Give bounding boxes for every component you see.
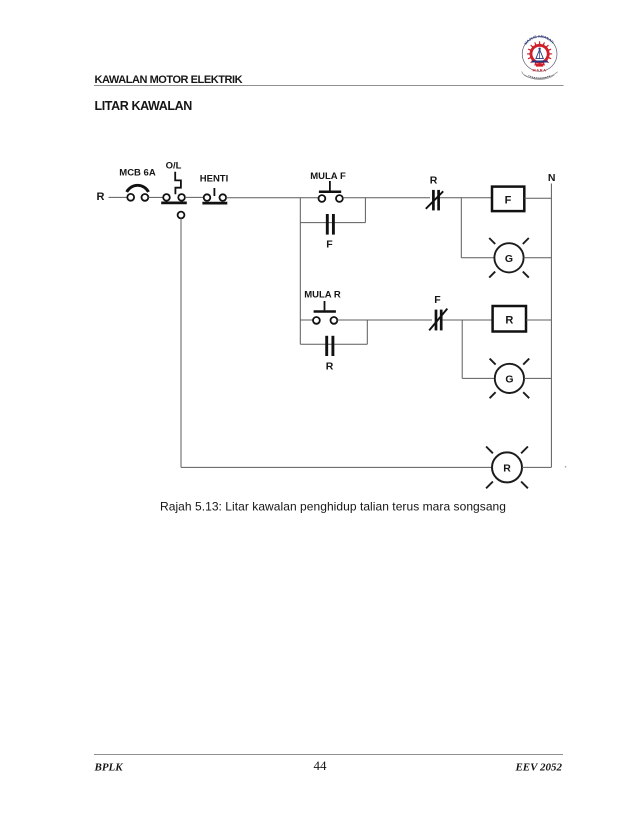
svg-text:MARA: MARA — [532, 69, 546, 73]
svg-text:N: N — [548, 172, 556, 184]
wire right side of holding branch R — [366, 320, 368, 344]
wire lamp G1 to N — [524, 257, 552, 259]
svg-text:44: 44 — [314, 758, 328, 773]
svg-text:R: R — [505, 315, 513, 327]
contactor coil R — [493, 306, 526, 332]
header rule — [94, 85, 564, 87]
svg-text:LITAR KAWALAN: LITAR KAWALAN — [95, 99, 193, 113]
wire left drop from O/L — [180, 218, 182, 467]
holding contact R — [326, 336, 334, 373]
stop button HENTI — [200, 174, 229, 204]
wire branch down to lamp G1 — [460, 198, 462, 258]
wire lamp R to N — [522, 466, 551, 468]
start button MULA F — [310, 171, 346, 202]
svg-text:EEV 2052: EEV 2052 — [514, 762, 562, 774]
overload relay O/L — [161, 161, 187, 219]
wire lower holding branch R — [300, 343, 367, 345]
svg-text:G: G — [505, 253, 513, 265]
wire MULA R to contact F — [337, 319, 432, 321]
wire neutral N vertical — [550, 184, 552, 468]
wire branch down to lamp G2 — [461, 320, 463, 378]
wire row2 start — [300, 319, 313, 321]
svg-text:O/L: O/L — [166, 161, 182, 172]
start button MULA R — [304, 290, 341, 324]
interlock contact F (NC) — [429, 294, 447, 330]
pilot lamp R — [486, 447, 528, 489]
wire to lamp G1 — [461, 257, 494, 259]
wire coil F to N — [524, 197, 551, 199]
wire vertical feed to row 2 — [299, 198, 301, 344]
contactor coil F — [492, 187, 524, 212]
breaker MCB 6A — [119, 168, 156, 201]
svg-text:F: F — [434, 294, 441, 306]
holding contact F — [326, 214, 333, 251]
svg-text:Rajah 5.13: Litar kawalan peng: Rajah 5.13: Litar kawalan penghidup tali… — [160, 500, 506, 514]
wire MULA F to contact R — [343, 197, 430, 199]
wire MCB to O/L — [148, 196, 163, 198]
svg-text:R: R — [503, 463, 511, 475]
wire lower holding branch F — [300, 222, 365, 224]
svg-text:MAJLIS AMANAH RAKYAT: MAJLIS AMANAH RAKYAT — [0, 0, 555, 46]
svg-text:F: F — [505, 194, 512, 206]
wire HENTI to MULA F — [226, 197, 319, 199]
logo IKM MARA emblem — [0, 0, 558, 79]
wire to lamp G2 — [462, 377, 495, 379]
svg-text:MCB 6A: MCB 6A — [119, 168, 156, 179]
svg-text:MULA F: MULA F — [310, 171, 346, 182]
svg-text:KAWALAN MOTOR ELEKTRIK: KAWALAN MOTOR ELEKTRIK — [95, 74, 243, 86]
svg-text:HENTI: HENTI — [200, 174, 229, 185]
interlock contact R (NC) — [426, 175, 443, 211]
svg-text:R: R — [97, 191, 105, 203]
wire bottom run — [181, 466, 492, 468]
svg-text:F: F — [326, 239, 333, 251]
stray mark — [565, 466, 567, 468]
wire R to MCB — [109, 196, 128, 198]
wire O/L to HENTI — [185, 196, 204, 198]
svg-text:R: R — [326, 360, 334, 372]
svg-text:MULA R: MULA R — [304, 290, 341, 301]
wire lamp G2 to N — [524, 377, 551, 379]
footer rule — [94, 754, 563, 756]
wire contact R to coil F — [440, 197, 492, 199]
wire contact F to coil R — [443, 319, 493, 321]
pilot lamp G1 — [489, 238, 529, 278]
wire coil R to N — [526, 319, 551, 321]
svg-text:R: R — [430, 175, 438, 187]
svg-text:G: G — [505, 374, 513, 386]
svg-text:BPLK: BPLK — [94, 762, 124, 774]
pilot lamp G2 — [490, 359, 530, 399]
wire right side of holding branch F — [364, 198, 366, 223]
